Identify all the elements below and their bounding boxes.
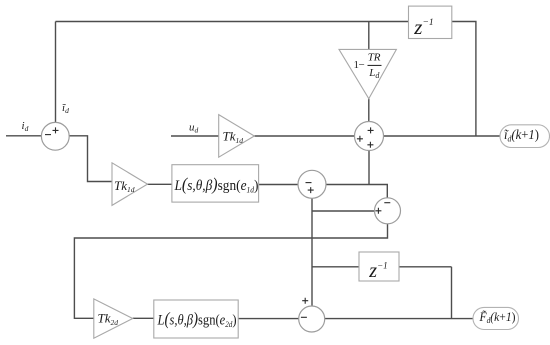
wire: adder S2 output to stadium i_d(k+1): [384, 135, 501, 137]
fraction bar TR/Ld: [368, 64, 382, 66]
wire: block L sgn(e1d) output into comparator S3: [259, 184, 298, 186]
block z^-1 (bottom): [359, 252, 399, 281]
gain triangle 1-TR/Ld (pointing down): [339, 49, 396, 98]
wire: comparator S4 output down, left, down, into gain Tk2d: [74, 224, 387, 318]
wire: adder S2 output down: [368, 151, 370, 185]
sign: S2 plus top: [368, 127, 374, 133]
gain triangle Tk1d (u_d path): [219, 115, 255, 158]
wire: bus tap into z^-1 (bottom) input: [312, 266, 359, 268]
wire: block L sgn(e2d) output into comparator S5: [238, 318, 299, 320]
summing junction S3: [298, 170, 326, 198]
sign: S2 plus left: [357, 136, 363, 142]
summing junction S5 (F_d adder): [299, 306, 325, 332]
svg-text:L(s,θ,β)sgn(e1d): L(s,θ,β)sgn(e1d): [174, 174, 259, 195]
svg-text:F̃d(k+1): F̃d(k+1): [479, 310, 516, 325]
wire: gain Tk1d (e1) output into block L sgn(e1d): [148, 183, 172, 185]
wire: junction row into comparator S4 top: [326, 185, 387, 198]
wire: tap down into triangle 1-TR/Ld: [368, 22, 370, 50]
output stadium i_d(k+1): [500, 125, 550, 148]
sign: S4 minus (top input): [384, 202, 390, 204]
output stadium F_d(k+1): [473, 307, 519, 329]
sign: S5 plus (top input, outside): [302, 298, 308, 304]
sign: S1 plus (top input): [53, 127, 59, 133]
block L(s,theta,beta)sgn(e2d): [154, 300, 238, 338]
svg-text:L(s,θ,β)sgn(e2d): L(s,θ,β)sgn(e2d): [157, 309, 237, 330]
summing junction S2 (main adder): [355, 122, 384, 151]
wire: S5 output to stadium F_d(k+1): [325, 318, 473, 320]
wire: left feedback drop into summing junction S1: [55, 22, 57, 123]
summing junction S4: [375, 198, 401, 224]
wire: z^-1 (bottom) output right: [399, 266, 452, 268]
wire: vertical bus x=312 from S3 down to S5: [311, 198, 313, 306]
label 1-TR/Ld inside triangle: [354, 51, 381, 80]
sign: S2 plus bottom: [367, 142, 373, 148]
svg-text:TR: TR: [368, 51, 381, 63]
wire: gain Tk2d output into block L sgn(e2d): [133, 317, 154, 319]
wire: gain Tku output into adder S2: [254, 135, 354, 137]
wire: S1 output right, down, into gain Tk1d: [69, 136, 112, 182]
gain triangle Tk1d (e1 path): [112, 163, 148, 206]
wire: top feedback horizontal run: [56, 21, 409, 23]
gain triangle Tk2d (e2 path): [94, 299, 133, 338]
wire: bus tap into comparator S4 left: [312, 210, 375, 212]
sign: S3 plus: [308, 187, 314, 193]
summing junction S1 (i_d comparison): [41, 122, 69, 150]
wire: triangle 1-TR/Ld output down into adder S2: [368, 99, 370, 122]
block z^-1 (top): [409, 6, 452, 38]
sign: S4 plus (left input): [375, 208, 381, 214]
sign: S5 minus (left input): [301, 316, 307, 318]
wire: feedback up from output line into z^-1 (bottom): [451, 267, 453, 319]
sign: S1 minus (left input): [45, 134, 51, 136]
wire: z^-1 (top) output to right then down to output line: [452, 22, 476, 137]
svg-text:−: −: [359, 59, 365, 71]
block L(s,theta,beta)sgn(e1d): [172, 165, 259, 202]
wire: input u_d: [171, 135, 219, 137]
wire: input i_d: [6, 135, 41, 137]
sign: S3 minus: [306, 182, 312, 184]
